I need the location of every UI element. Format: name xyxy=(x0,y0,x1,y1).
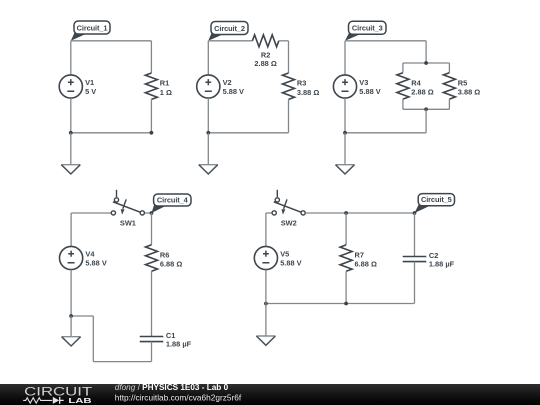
node label Circuit_5 xyxy=(415,194,455,213)
wire parallel top rail xyxy=(403,62,450,64)
svg-text:Circuit_3: Circuit_3 xyxy=(352,24,383,33)
capacitor C2 xyxy=(403,251,455,269)
resistor R1 xyxy=(145,73,172,99)
junction R7 top xyxy=(344,211,348,215)
svg-text:V1: V1 xyxy=(85,78,94,87)
wire V5 top xyxy=(265,213,267,246)
junction parallel bottom xyxy=(424,107,428,111)
voltage source V3 xyxy=(333,75,380,98)
wire V3 bottom xyxy=(344,98,346,133)
svg-text:5.88 V: 5.88 V xyxy=(223,87,244,96)
svg-text:C1: C1 xyxy=(166,331,175,340)
wire R7 top lead xyxy=(345,213,347,245)
wire top Circuit_1 xyxy=(71,40,152,42)
svg-text:Circuit_1: Circuit_1 xyxy=(77,23,108,32)
wire parallel bottom rail xyxy=(403,108,450,110)
svg-text:3.88 Ω: 3.88 Ω xyxy=(297,88,319,97)
resistor R6 xyxy=(146,245,183,271)
ground xyxy=(256,336,275,345)
junction R7 bottom xyxy=(344,302,348,306)
wire R6 top xyxy=(151,213,153,245)
svg-text:5 V: 5 V xyxy=(85,87,96,96)
svg-text:R6: R6 xyxy=(160,251,169,260)
wire R7 bottom xyxy=(345,271,347,303)
ground xyxy=(61,165,80,174)
wire top Circuit_3 xyxy=(345,40,426,42)
wire R3 top xyxy=(288,41,290,73)
svg-text:2.88 Ω: 2.88 Ω xyxy=(411,88,433,97)
svg-text:Circuit_5: Circuit_5 xyxy=(421,195,452,204)
svg-text:C2: C2 xyxy=(429,251,438,260)
wire return up xyxy=(92,316,94,362)
wire to ground 2 xyxy=(207,133,209,165)
resistor R3 xyxy=(283,73,320,99)
svg-text:Circuit_2: Circuit_2 xyxy=(214,24,245,33)
wire V4 to SW1 xyxy=(71,212,111,214)
wire V5 bottom xyxy=(265,270,267,304)
wire C2 bottom xyxy=(414,262,416,304)
wire V4 bottom xyxy=(70,270,72,316)
svg-text:5.88 V: 5.88 V xyxy=(85,258,106,267)
svg-text:1 Ω: 1 Ω xyxy=(160,88,172,97)
wire top right Circuit_2 xyxy=(279,40,289,42)
switch SW2 xyxy=(272,190,305,228)
svg-text:2.88 Ω: 2.88 Ω xyxy=(254,59,276,68)
wire V2 top xyxy=(207,41,209,75)
svg-text:V4: V4 xyxy=(85,250,95,259)
resistor R7 xyxy=(340,245,377,271)
junction node Circuit_4 xyxy=(150,211,154,215)
svg-text:6.88 Ω: 6.88 Ω xyxy=(160,260,182,269)
svg-text:http://circuitlab.com/cva6h2gr: http://circuitlab.com/cva6h2grz5r6f xyxy=(115,392,242,402)
wire return to node xyxy=(71,315,93,317)
node label Circuit_3 xyxy=(345,21,386,41)
svg-text:V2: V2 xyxy=(223,78,232,87)
wire R6 to C1 xyxy=(151,271,153,336)
svg-text:V3: V3 xyxy=(359,78,368,87)
junction node Circuit_3 gnd xyxy=(343,131,347,135)
wire R3 bottom xyxy=(288,99,290,132)
svg-text:R3: R3 xyxy=(297,79,306,88)
CircuitLab logo resistor-diode glyph xyxy=(23,397,64,404)
wire R4 top xyxy=(402,63,404,73)
svg-text:Circuit_4: Circuit_4 xyxy=(157,195,189,204)
ground xyxy=(336,165,355,174)
junction node Circuit_5 xyxy=(413,211,417,215)
svg-text:5.88 V: 5.88 V xyxy=(280,258,301,267)
wire R1 bottom xyxy=(150,99,152,132)
wire R1 top xyxy=(150,41,152,73)
svg-text:LAB: LAB xyxy=(68,396,91,405)
wire R4 bottom xyxy=(402,99,404,109)
voltage source V4 xyxy=(60,246,107,269)
svg-text:SW2: SW2 xyxy=(281,219,297,228)
svg-text:R4: R4 xyxy=(411,78,421,87)
junction node Circuit_1 gnd xyxy=(69,131,73,135)
svg-text:R5: R5 xyxy=(458,78,467,87)
wire V2 bottom xyxy=(207,98,209,133)
voltage source V1 xyxy=(59,75,96,98)
wire to ground 5 xyxy=(265,304,267,337)
switch SW1 xyxy=(111,190,144,228)
wire V1 bottom xyxy=(70,98,72,133)
wire to ground 4 xyxy=(70,316,72,337)
wire SW2 to C2 branch xyxy=(306,212,415,214)
wire feed bottom xyxy=(425,109,427,133)
wire bottom Circuit_3 xyxy=(345,132,426,134)
node label Circuit_2 xyxy=(208,22,248,41)
svg-text:6.88 Ω: 6.88 Ω xyxy=(355,260,377,269)
wire V3 top xyxy=(344,41,346,75)
wire bottom Circuit_1 xyxy=(71,132,152,134)
junction parallel top xyxy=(424,61,428,65)
svg-text:dfong / PHYSICS 1E03 - Lab 0: dfong / PHYSICS 1E03 - Lab 0 xyxy=(115,383,229,392)
ground xyxy=(199,165,218,174)
wire to ground 1 xyxy=(70,133,72,165)
wire R5 bottom xyxy=(448,99,450,109)
voltage source V5 xyxy=(254,246,301,269)
resistor R2 xyxy=(252,35,278,68)
junction node Circuit_2 gnd xyxy=(206,131,210,135)
svg-text:R7: R7 xyxy=(355,251,364,260)
node label Circuit_1 xyxy=(71,21,110,41)
ground xyxy=(62,337,81,346)
svg-text:R2: R2 xyxy=(261,50,270,59)
wire R5 top xyxy=(448,63,450,73)
svg-text:V5: V5 xyxy=(280,250,289,259)
wire top left Circuit_2 xyxy=(208,40,252,42)
svg-text:1.88 µF: 1.88 µF xyxy=(166,340,192,349)
wire V1 top xyxy=(70,41,72,75)
junction node R1 bottom xyxy=(150,131,154,135)
wire C1 bottom xyxy=(151,342,153,362)
wire SW1 to node xyxy=(145,212,152,214)
junction node Circuit_5 gnd xyxy=(264,302,268,306)
footer bar xyxy=(0,384,540,405)
node label Circuit_4 xyxy=(152,194,192,213)
wire feed down xyxy=(425,41,427,63)
svg-text:3.88 Ω: 3.88 Ω xyxy=(458,88,480,97)
svg-text:5.88 V: 5.88 V xyxy=(359,87,380,96)
wire V5 to SW2 xyxy=(266,212,272,214)
wire C2 top lead xyxy=(414,213,416,257)
resistor R5 xyxy=(443,73,480,99)
svg-text:SW1: SW1 xyxy=(120,219,136,228)
wire bottom Circuit_5 xyxy=(266,303,415,305)
resistor R4 xyxy=(397,73,434,99)
wire to ground 3 xyxy=(344,133,346,165)
wire bottom Circuit_2 xyxy=(208,132,288,134)
wire V4 top xyxy=(70,213,72,246)
svg-text:R1: R1 xyxy=(160,79,169,88)
voltage source V2 xyxy=(197,75,244,98)
wire bottom Circuit_4 xyxy=(93,361,151,363)
junction node Circuit_4 gnd xyxy=(69,314,73,318)
capacitor C1 xyxy=(140,331,192,349)
svg-text:1.88 µF: 1.88 µF xyxy=(429,260,455,269)
